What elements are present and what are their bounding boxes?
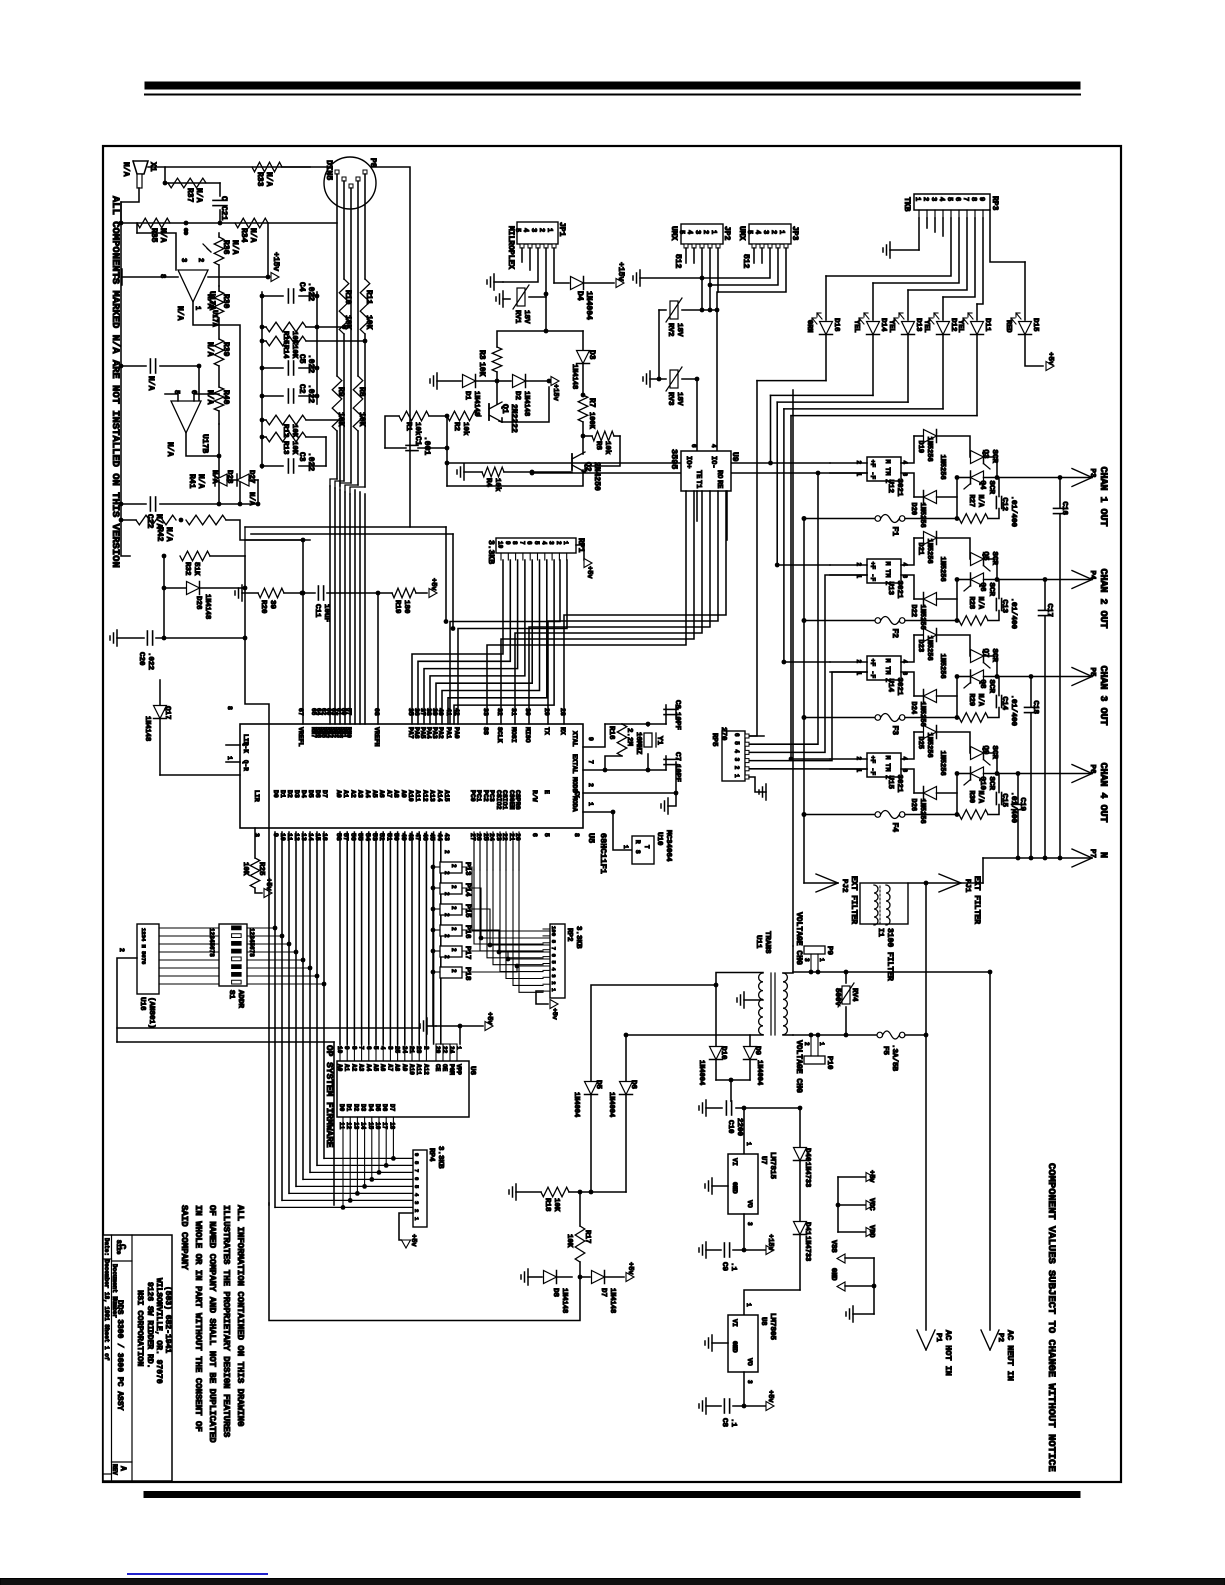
transistor Q2 2N4250 [571, 454, 573, 470]
U7 output to +15v [743, 1214, 745, 1250]
svg-text:5: 5 [513, 228, 521, 232]
+5v jumper node [460, 1025, 483, 1027]
svg-text:1N4733: 1N4733 [803, 1236, 811, 1261]
svg-text:N/A: N/A [205, 294, 214, 309]
svg-text:WILSONVILLE, OR. 97070: WILSONVILLE, OR. 97070 [154, 1278, 163, 1384]
svg-text:P4: P4 [1088, 571, 1096, 581]
wires TB8 pins down fanout [926, 218, 928, 228]
svg-text:18: 18 [388, 1122, 395, 1130]
off-page arrow P4 CHAN 2 OUT [1072, 571, 1092, 580]
svg-text:25: 25 [394, 1046, 401, 1054]
svg-text:7: 7 [518, 541, 525, 545]
svg-text:PA0: PA0 [453, 727, 460, 739]
svg-text:.022: .022 [306, 384, 315, 403]
svg-text:500v: 500v [833, 988, 841, 1007]
SCR Q4 on rail [971, 471, 984, 484]
svg-text:2: 2 [537, 228, 545, 232]
svg-text:C15: C15 [1000, 794, 1008, 808]
svg-text:6: 6 [733, 733, 740, 737]
svg-text:10K: 10K [241, 862, 249, 876]
svg-text:2: 2 [769, 230, 777, 234]
capacitor C6 10PF [665, 705, 667, 724]
svg-text:IO-: IO- [709, 456, 717, 469]
svg-text:2: 2 [443, 892, 450, 896]
svg-text:R3: R3 [477, 350, 486, 360]
svg-text:D1: D1 [279, 790, 286, 798]
svg-text:1N4004: 1N4004 [607, 1092, 615, 1117]
svg-text:D8: D8 [551, 1288, 559, 1298]
svg-text:N/A: N/A [146, 376, 155, 391]
svg-text:3: 3 [746, 1222, 753, 1226]
svg-text:D23: D23 [916, 640, 924, 653]
svg-text:SAID COMPANY: SAID COMPANY [179, 1205, 189, 1270]
svg-text:6: 6 [690, 444, 697, 448]
diode D17 1N4148 left [159, 680, 161, 705]
svg-text:OE: OE [441, 1064, 448, 1072]
svg-text:100K: 100K [587, 412, 595, 430]
svg-text:VO: VO [746, 1200, 753, 1208]
svg-text:TX: TX [543, 727, 550, 735]
PC/CS bus from U5 down [473, 832, 475, 870]
svg-text:R30: R30 [221, 294, 230, 309]
resistor R37 N/A [168, 178, 206, 188]
capacitor C10 2200 [705, 1100, 707, 1116]
svg-text:P9: P9 [825, 946, 833, 956]
svg-text:-F: -F [869, 574, 876, 582]
svg-text:Q6: Q6 [978, 583, 986, 593]
svg-text:D0: D0 [338, 1104, 345, 1112]
fuse F5 .3A/5B [793, 1034, 877, 1036]
svg-text:N/A: N/A [121, 162, 130, 177]
svg-text:+5v: +5v [585, 566, 593, 579]
varistor RV4 500V [845, 972, 847, 983]
svg-text:P3: P3 [1088, 469, 1096, 479]
svg-text:10K: 10K [357, 412, 366, 427]
ground JP2/JP3 net [639, 270, 641, 286]
svg-text:1: 1 [733, 774, 740, 778]
svg-text:2: 2 [196, 258, 204, 262]
svg-text:R25: R25 [257, 862, 265, 876]
svg-text:N/A: N/A [196, 474, 205, 489]
svg-text:1N5256: 1N5256 [918, 799, 926, 824]
LED D11 YEL [976, 304, 978, 320]
wires crystal network [605, 723, 666, 725]
svg-text:N/A: N/A [165, 442, 174, 457]
svg-text:2: 2 [450, 885, 457, 889]
svg-text:RP4: RP4 [427, 1148, 435, 1162]
svg-text:3: 3 [929, 197, 937, 201]
svg-text:2: 2 [450, 864, 457, 868]
svg-text:R11: R11 [364, 290, 373, 305]
svg-text:22: 22 [441, 1046, 448, 1054]
svg-text:39: 39 [431, 708, 438, 716]
fuse F2 [804, 620, 875, 622]
wire Q9 to rail [984, 753, 998, 774]
top separator thin line [145, 94, 1080, 96]
svg-text:SCLK: SCLK [496, 727, 503, 743]
svg-text:2: 2 [555, 541, 562, 545]
svg-text:N/A: N/A [248, 228, 257, 243]
svg-text:4: 4 [379, 1046, 386, 1050]
svg-text:R8: R8 [357, 387, 366, 397]
svg-text:RP3: RP3 [990, 196, 999, 211]
svg-text:29: 29 [543, 708, 550, 716]
svg-text:+F: +F [869, 460, 876, 468]
varistor RV2 18V [659, 309, 666, 311]
svg-text:18V: 18V [675, 323, 683, 337]
svg-text:T: T [643, 845, 650, 849]
svg-text:10K: 10K [565, 1234, 573, 1248]
svg-text:R7: R7 [587, 398, 596, 408]
svg-text:JP2: JP2 [722, 226, 731, 241]
bulk cap C17 [1044, 580, 1046, 610]
snubber cap C12 .01/400 [988, 509, 999, 519]
svg-text:1: 1 [562, 541, 569, 545]
wires transformer primary [783, 946, 793, 973]
svg-text:RX: RX [559, 727, 566, 735]
svg-text:68HC11F1: 68HC11F1 [598, 833, 608, 874]
wire rectifier node [716, 1079, 750, 1081]
svg-text:.022: .022 [306, 282, 315, 301]
svg-text:T1: T1 [694, 480, 702, 488]
svg-text:D26: D26 [909, 799, 917, 812]
svg-text:1N5256: 1N5256 [938, 455, 946, 480]
svg-text:GND: GND [731, 1182, 738, 1194]
svg-text:R33: R33 [255, 172, 264, 187]
svg-text:A2: A2 [350, 1064, 357, 1072]
snubber resistor R28 N/A [959, 616, 988, 626]
svg-text:MISO: MISO [524, 727, 531, 743]
svg-text:30: 30 [524, 708, 531, 716]
svg-text:N/A: N/A [158, 228, 167, 243]
svg-text:PA3: PA3 [431, 727, 438, 739]
svg-text:D6: D6 [314, 790, 321, 798]
svg-text:R12: R12 [281, 424, 289, 438]
svg-text:16: 16 [374, 1122, 381, 1130]
svg-text:3: 3 [529, 228, 537, 232]
svg-text:10k: 10k [413, 422, 421, 436]
wire left mid to MCU [245, 638, 269, 1205]
left rail vertical [120, 202, 122, 520]
svg-text:3100 FILTER: 3100 FILTER [885, 928, 894, 981]
svg-text:EXT FILTER: EXT FILTER [972, 876, 981, 924]
opto U15 MOC3021 [867, 753, 901, 777]
wire Q7 to rail [984, 656, 998, 677]
svg-text:+F: +F [869, 756, 876, 764]
svg-text:20: 20 [434, 1046, 441, 1054]
LED cathode buses [757, 380, 826, 382]
wire opto U13 pin6 down [901, 575, 914, 599]
svg-text:C11: C11 [313, 604, 321, 618]
svg-text:Q10: Q10 [978, 777, 986, 791]
svg-text:5: 5 [533, 541, 540, 545]
svg-text:C13: C13 [1000, 600, 1008, 614]
svg-text:CHAN 4 OUT: CHAN 4 OUT [1097, 763, 1108, 823]
svg-text:R29: R29 [967, 694, 975, 707]
+5v arrow R19 [429, 589, 437, 598]
svg-text:R30: R30 [967, 791, 975, 804]
resistor pack RP1 3.3KB [496, 538, 576, 553]
svg-text:F4: F4 [890, 823, 899, 833]
wires JP3 pins down [753, 248, 755, 263]
svg-text:6: 6 [526, 541, 533, 545]
svg-text:C12: C12 [1000, 498, 1008, 512]
svg-text:3595: 3595 [669, 449, 679, 469]
wires opto U15 inputs [830, 758, 867, 760]
svg-text:5: 5 [543, 833, 550, 837]
capacitor C4 .022 [262, 295, 283, 297]
svg-text:R18: R18 [543, 1198, 551, 1212]
wire AC neutral vertical to P2 [989, 972, 991, 1330]
svg-text:A10: A10 [408, 1064, 415, 1075]
svg-text:PA4: PA4 [425, 727, 432, 739]
LED bus drops to opto +F rows [770, 395, 772, 463]
zener D22 1N5256 [914, 598, 923, 600]
wire U5 MODA to U10 [583, 812, 632, 850]
svg-text:24: 24 [488, 833, 495, 841]
svg-text:A2: A2 [349, 790, 356, 798]
svg-text:N/A: N/A [210, 470, 218, 484]
svg-text:10K: 10K [290, 441, 298, 455]
svg-text:+15v: +15v [766, 1234, 774, 1252]
svg-text:3: 3 [693, 230, 701, 234]
bulk cap C19 [1017, 774, 1019, 804]
svg-text:68: 68 [373, 708, 380, 716]
wires S1 to address bus [247, 927, 275, 929]
svg-text:1: 1 [455, 1046, 462, 1050]
svg-text:Q-K: Q-K [242, 742, 249, 753]
svg-text:1N5256: 1N5256 [925, 539, 933, 564]
svg-text:TE: TE [694, 470, 702, 478]
IC U6 OP SYSTEM FIRMWARE [337, 1061, 469, 1117]
wire Q1 collector to R7 [502, 387, 549, 422]
capacitor C20 .022 with ground [116, 630, 118, 646]
svg-text:CSGEN: CSGEN [508, 790, 515, 810]
left vertical rail channel 3 [956, 677, 958, 718]
svg-text:R37: R37 [185, 188, 194, 203]
SCR Q9 [971, 747, 984, 760]
snubber cap C14 .01/400 [988, 708, 999, 718]
svg-text:VSS: VSS [829, 1240, 837, 1253]
svg-text:3021: 3021 [895, 678, 903, 697]
svg-text:SCR: SCR [987, 481, 995, 495]
svg-text:5: 5 [372, 1046, 379, 1050]
svg-text:24: 24 [448, 1046, 455, 1054]
ground RP5 [749, 777, 766, 792]
svg-text:16MHZ: 16MHZ [634, 732, 642, 755]
diode D6 1N4004 [625, 1035, 627, 1081]
svg-text:YEL: YEL [922, 320, 930, 333]
svg-text:MOSI: MOSI [510, 727, 517, 743]
svg-text:1N5256: 1N5256 [925, 437, 933, 462]
svg-text:10k: 10k [493, 478, 501, 492]
svg-text:C16: C16 [1060, 502, 1068, 516]
svg-text:A: A [118, 1466, 127, 1471]
svg-text:U6: U6 [468, 1066, 476, 1076]
long wires bottom left [117, 1041, 334, 1043]
IC U5 68HC11F1 [240, 724, 583, 828]
svg-text:N/A: N/A [264, 172, 273, 187]
svg-text:VI: VI [731, 1319, 738, 1327]
svg-text:18V: 18V [675, 392, 683, 406]
svg-text:D1: D1 [345, 1104, 352, 1112]
arrow P2 AC NEUT IN [981, 1330, 990, 1350]
filter bank left rail [261, 292, 263, 468]
svg-text:8: 8 [969, 197, 977, 201]
svg-text:RV1: RV1 [513, 310, 521, 324]
svg-text:A3: A3 [357, 790, 364, 798]
left vertical rail channel 4 [956, 774, 958, 815]
svg-text:A3: A3 [358, 1064, 365, 1072]
capacitor C21 [219, 183, 221, 196]
svg-text:40: 40 [437, 708, 444, 716]
svg-text:1: 1 [818, 1042, 825, 1046]
svg-text:7: 7 [587, 760, 594, 764]
svg-text:39: 39 [268, 600, 276, 610]
SCR Q3 [971, 451, 984, 464]
snubber cap C13 .01/400 [988, 611, 999, 621]
svg-text:15: 15 [367, 1122, 374, 1130]
resistor R42 N/A [121, 519, 136, 521]
svg-text:A0: A0 [336, 1064, 343, 1072]
svg-text:3021: 3021 [895, 775, 903, 794]
wires JP2 pins down [685, 248, 687, 263]
svg-text:4: 4 [937, 197, 945, 201]
svg-text:10PF: 10PF [673, 712, 681, 731]
jumper P17 wires [433, 950, 440, 952]
svg-text:RO: RO [715, 470, 723, 478]
svg-text:VOLTAGE CHG: VOLTAGE CHG [794, 1040, 803, 1093]
resistor R15 10K [266, 322, 306, 332]
svg-text:D7: D7 [599, 1288, 607, 1297]
drawing border frame [103, 146, 1121, 1482]
svg-text:RP2: RP2 [565, 928, 573, 942]
resistor R2 10K [477, 415, 481, 417]
svg-text:R40: R40 [221, 390, 230, 405]
svg-text:1N5256: 1N5256 [938, 654, 946, 679]
svg-text:D20: D20 [909, 503, 917, 516]
svg-text:38: 38 [425, 708, 432, 716]
svg-text:JP1: JP1 [557, 222, 566, 237]
resistor R30 N/A column [218, 286, 220, 291]
svg-text:1N4004: 1N4004 [572, 1092, 580, 1117]
svg-text:A11: A11 [415, 1064, 422, 1075]
wire opto U15 pin4 up [901, 732, 914, 759]
svg-text:N/A: N/A [976, 597, 984, 610]
svg-text:47: 47 [414, 833, 421, 841]
svg-text:10K: 10K [290, 345, 298, 359]
diode D4 1N4004 [554, 282, 569, 284]
svg-text:RP5: RP5 [710, 733, 718, 747]
svg-text:U7: U7 [759, 1156, 767, 1164]
inductor I1 3100 FILTER [860, 883, 908, 924]
svg-text:D7: D7 [321, 790, 328, 798]
svg-text:10k: 10k [603, 441, 611, 455]
svg-text:1: 1 [777, 230, 785, 234]
svg-text:A8: A8 [393, 790, 400, 798]
output rail channel 4 [957, 773, 971, 775]
resistor pack RP4 3.3KB [413, 1150, 427, 1227]
resistor R1 10K and cap C1 .001 [399, 411, 429, 421]
ground jumper rail [427, 1025, 436, 1027]
svg-text:RV2: RV2 [666, 323, 674, 337]
svg-text:D6: D6 [629, 1080, 637, 1090]
diode D27 N/A [237, 474, 249, 486]
svg-text:31: 31 [510, 708, 517, 716]
svg-text:XTAL: XTAL [571, 731, 578, 747]
wires JP1 pins [521, 248, 523, 262]
svg-text:+5v: +5v [867, 1170, 875, 1183]
IC U9 3595 [681, 451, 731, 491]
LED D15 RED [1024, 262, 1026, 320]
svg-text:P5: P5 [1088, 668, 1096, 678]
svg-text:1N4148: 1N4148 [608, 1288, 616, 1313]
svg-text:MILROPLEX: MILROPLEX [506, 226, 515, 269]
svg-text:1N5256: 1N5256 [918, 503, 926, 528]
svg-text:RE: RE [715, 480, 723, 488]
filter bank right rail [316, 292, 318, 404]
wire R33 right to DIN column [282, 167, 410, 527]
svg-text:A12: A12 [422, 1064, 429, 1075]
svg-text:.022: .022 [306, 452, 315, 471]
svg-text:IN WHOLE OR IN PART WITHOUT TH: IN WHOLE OR IN PART WITHOUT THE CONSENT … [193, 1205, 203, 1432]
svg-text:10PF: 10PF [673, 764, 681, 783]
wire D41 to U8 [744, 1290, 800, 1315]
svg-text:.022: .022 [146, 652, 154, 671]
bus lines into U6 top [339, 1044, 341, 1061]
resistor R19 180 [392, 588, 416, 598]
svg-text:+15v: +15v [551, 384, 559, 402]
svg-text:R39: R39 [221, 342, 230, 357]
svg-text:VI: VI [731, 1158, 738, 1166]
wire top rail [148, 166, 310, 168]
svg-text:VREFL: VREFL [297, 727, 304, 747]
svg-text:UMX: UMX [669, 226, 678, 241]
IC U16 AN80 [137, 924, 159, 994]
resistor R25 10K [254, 828, 256, 858]
svg-text:D7: D7 [388, 1104, 395, 1112]
fuse F3 [804, 717, 875, 719]
wire zener to SCR Q5 [937, 538, 971, 559]
svg-text:20: 20 [514, 833, 521, 841]
svg-text:Y1: Y1 [655, 736, 663, 746]
svg-text:D15: D15 [1031, 318, 1039, 332]
svg-text:C18: C18 [1031, 701, 1039, 715]
jumper P16 wires [433, 929, 440, 931]
diode D26 1N4148 [187, 582, 200, 595]
svg-text:UMX: UMX [737, 226, 746, 241]
svg-text:LM7815: LM7815 [768, 1152, 776, 1180]
svg-text:N/A: N/A [194, 188, 203, 203]
title block frame [103, 1235, 172, 1481]
svg-text:7: 7 [961, 197, 969, 201]
diode D28 N/A [215, 474, 227, 486]
svg-text:VDD: VDD [867, 1225, 875, 1238]
svg-text:ADDR: ADDR [236, 990, 244, 1009]
svg-text:F3: F3 [890, 726, 899, 736]
junction dots filter to DIN [342, 325, 347, 330]
svg-text:6: 6 [550, 954, 557, 957]
svg-text:YEL: YEL [887, 320, 895, 333]
title block inner lines [111, 1235, 113, 1481]
svg-text:.01/400: .01/400 [1009, 695, 1017, 727]
resistor R10 10K on DIN wire [339, 279, 349, 334]
svg-text:C: C [117, 1244, 127, 1250]
transistor Q1 2N2222 [488, 404, 490, 420]
svg-text:CHAN 3 OUT: CHAN 3 OUT [1097, 666, 1108, 726]
ground center tap [744, 999, 763, 1001]
wire D16 chain to RP5 [749, 381, 757, 736]
